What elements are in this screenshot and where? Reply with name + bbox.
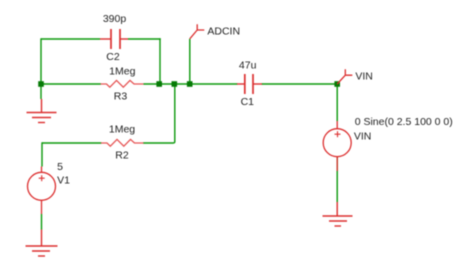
wire ADCIN vertical xyxy=(189,39,191,84)
wire C1 right to VIN node xyxy=(262,83,338,85)
svg-text:5: 5 xyxy=(57,161,63,173)
wire V1 bottom vertical xyxy=(41,214,43,230)
wire right vertical from C2 row down to R3 row xyxy=(159,38,161,84)
wire VIN source bottom to ground xyxy=(336,157,338,202)
junction node under C2 right corner xyxy=(156,81,162,87)
wire middle vertical down from junction to R2 row and left to R2 xyxy=(143,84,175,143)
voltage source VIN xyxy=(323,121,351,171)
junction node VIN xyxy=(334,81,340,87)
svg-text:VIN: VIN xyxy=(354,131,372,143)
svg-text:1Meg: 1Meg xyxy=(109,124,135,136)
svg-text:VIN: VIN xyxy=(355,71,373,83)
voltage source V1 xyxy=(28,167,56,215)
svg-text:C2: C2 xyxy=(106,51,120,63)
svg-text:V1: V1 xyxy=(57,175,70,187)
ground (under VIN source) xyxy=(323,202,353,226)
junction node for ADCIN branch xyxy=(187,81,193,87)
svg-text:ADCIN: ADCIN xyxy=(207,26,240,38)
junction node for R2 branch xyxy=(172,81,178,87)
wire R3 row left segment xyxy=(41,83,101,85)
svg-text:390p: 390p xyxy=(103,13,127,25)
wire top-right horizontal (C2 right lead to right corner) xyxy=(128,38,161,40)
svg-text:R2: R2 xyxy=(115,150,129,162)
svg-text:1Meg: 1Meg xyxy=(109,66,135,78)
svg-text:0 Sine(0 2.5 100 0 0): 0 Sine(0 2.5 100 0 0) xyxy=(355,116,453,128)
flag ADCIN xyxy=(190,24,205,39)
ground (top left) xyxy=(27,99,57,123)
resistor R2 xyxy=(101,139,144,146)
wire R2 row left segment xyxy=(42,142,102,144)
wire left vertical from C2 row down to ground xyxy=(40,38,42,99)
wire top-left horizontal (node to C2 left lead) xyxy=(41,38,100,40)
wire VIN node down to source xyxy=(336,84,338,121)
svg-text:R3: R3 xyxy=(114,91,128,103)
ground (under V1) xyxy=(26,230,58,257)
capacitor C2 xyxy=(100,29,128,49)
wire V1 top vertical xyxy=(41,142,43,166)
wire R3 row middle segment (R3 right lead through junctions to C1) xyxy=(144,83,238,85)
svg-text:C1: C1 xyxy=(241,96,255,108)
resistor R3 xyxy=(101,80,144,87)
flag VIN xyxy=(337,69,352,84)
svg-text:47u: 47u xyxy=(239,60,257,72)
capacitor C1 xyxy=(237,74,262,94)
junction node at left (R3 row / ground branch) xyxy=(38,81,44,87)
